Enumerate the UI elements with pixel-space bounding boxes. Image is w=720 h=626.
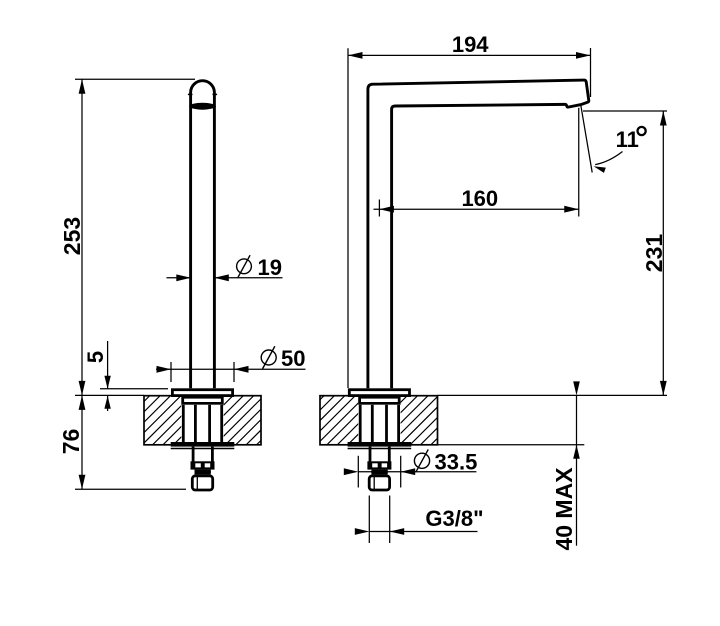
svg-text:194: 194 xyxy=(452,32,489,57)
svg-text:5: 5 xyxy=(83,351,108,363)
svg-text:253: 253 xyxy=(59,217,85,255)
svg-text:50: 50 xyxy=(281,346,305,371)
svg-text:19: 19 xyxy=(258,255,282,280)
svg-text:G3/8": G3/8" xyxy=(425,506,483,531)
svg-text:40 MAX: 40 MAX xyxy=(551,467,577,551)
svg-text:231: 231 xyxy=(641,234,667,273)
svg-text:76: 76 xyxy=(58,429,84,455)
svg-text:33.5: 33.5 xyxy=(435,449,478,474)
svg-text:11: 11 xyxy=(616,127,639,152)
svg-text:160: 160 xyxy=(461,186,498,211)
